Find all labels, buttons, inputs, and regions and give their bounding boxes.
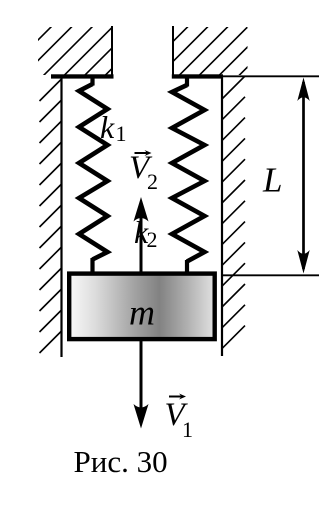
dimension line L [302, 82, 305, 269]
label V2 vector accent [135, 152, 148, 154]
ceiling block right ledge [172, 74, 223, 78]
right wall hatch ticks [222, 76, 245, 349]
spring k1 bottom stub [90, 258, 94, 274]
svg-text:1: 1 [182, 417, 193, 442]
ceiling block left right edge [111, 26, 113, 79]
spring k1 zigzag [79, 84, 108, 260]
top reference line [222, 75, 319, 77]
svg-text:1: 1 [116, 121, 127, 146]
left wall hatch ticks [40, 79, 62, 353]
svg-text:2: 2 [147, 227, 158, 252]
left wall line [60, 76, 62, 357]
vector V1 arrowhead [134, 404, 149, 429]
label V1 vector accent [169, 396, 182, 398]
vector V2 arrowhead [134, 197, 149, 222]
spring k2 bottom stub [185, 260, 189, 274]
svg-text:Рис. 30: Рис. 30 [74, 444, 168, 479]
right wall line [221, 76, 223, 356]
mass block m [69, 274, 215, 340]
spring k2 top stub [185, 77, 189, 87]
svg-text:2: 2 [147, 169, 158, 194]
svg-text:L: L [262, 161, 282, 200]
svg-text:m: m [129, 293, 155, 333]
vector V1 arrow line [140, 339, 143, 408]
spring k1 top stub [90, 77, 94, 86]
svg-text:k: k [100, 109, 115, 145]
dimension arrowhead bottom [297, 250, 309, 274]
vector V2 arrow line [140, 218, 143, 272]
ceiling block left ledge [51, 74, 114, 78]
ceiling block left hatching [2, 0, 181, 76]
dimension arrowhead top [297, 78, 309, 102]
bottom reference line [223, 274, 319, 276]
spring k2 zigzag [172, 85, 205, 262]
ceiling block right left edge [172, 26, 174, 79]
ceiling block right hatching [139, 0, 315, 76]
